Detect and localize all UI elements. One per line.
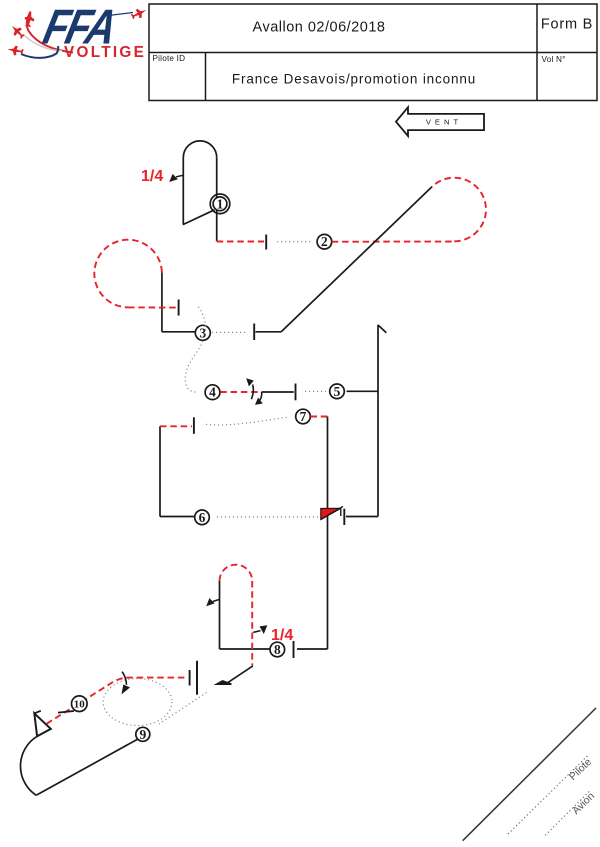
- figure 6 red dashed exit: [160, 425, 192, 427]
- red plane top right: [130, 6, 149, 22]
- svg-text:1/4: 1/4: [271, 627, 293, 644]
- figure 3 red dashed loop: [94, 240, 162, 308]
- figure 5 end tick: [343, 509, 345, 525]
- figure 2 exit horizontal line: [256, 331, 282, 333]
- connector dotted to circle 5: [305, 390, 326, 392]
- figure 5 bottom exit line: [346, 516, 378, 518]
- figure 9 exit open arrowhead: [34, 711, 51, 737]
- connector dotted curve to circle 7: [206, 417, 287, 425]
- signature dotted line Pilote: [508, 754, 594, 834]
- figure 3 end tick: [178, 300, 180, 316]
- fig1 diagonal line: [183, 210, 215, 225]
- svg-text:7: 7: [300, 409, 307, 424]
- figure 4 rotation arrow upper: [246, 378, 254, 399]
- figure 8 quarter roll arrow: [206, 598, 219, 606]
- node circle 5: [330, 384, 345, 399]
- svg-text:4: 4: [209, 385, 216, 400]
- figure 9 diagonal down line: [36, 739, 138, 795]
- figure 8 quarter roll arrow on down line: [253, 625, 267, 634]
- fig1 top half-loop cap: [183, 141, 216, 158]
- fig1 left vertical line: [182, 157, 184, 225]
- figure 8 entry horizontal line: [220, 648, 270, 650]
- figure 4 end tick: [295, 384, 297, 401]
- figure 8 exit diagonal arrow: [214, 666, 254, 685]
- figure 4 solid exit line: [262, 391, 294, 393]
- svg-text:9: 9: [139, 727, 146, 742]
- figure 5 entry horizontal line: [347, 390, 379, 392]
- svg-text:Pilote: Pilote: [567, 756, 594, 783]
- figure 10 end tick: [189, 670, 191, 686]
- node circle 10: [72, 696, 88, 712]
- figure 7 end tick: [293, 641, 295, 658]
- figure 3 vertical line: [161, 272, 163, 332]
- svg-text:3: 3: [199, 325, 206, 340]
- connector dotted to circle 6: [217, 516, 319, 518]
- figure 6 end tick: [193, 417, 195, 434]
- figure 3 entry horizontal line: [162, 331, 195, 333]
- svg-text:6: 6: [199, 510, 206, 525]
- figure 8 red dashed down line: [251, 581, 253, 665]
- figure 7 red dashed entry: [311, 416, 328, 418]
- figure 5 vertical line: [377, 325, 379, 517]
- node circle 1 (double ring): [210, 194, 230, 214]
- svg-text:Vol N°: Vol N°: [542, 55, 566, 64]
- header table frame: [149, 4, 597, 101]
- node circle 2: [317, 234, 332, 249]
- node circle 4: [205, 385, 220, 400]
- fig1 end tick: [265, 235, 267, 250]
- node circle 7: [296, 409, 311, 424]
- figure 10 red dashed diagonal: [47, 678, 188, 724]
- svg-text:VENT: VENT: [426, 118, 462, 127]
- figure 9 half loop arc: [20, 736, 37, 795]
- node circle 9: [136, 727, 150, 742]
- svg-text:Avion: Avion: [570, 790, 597, 817]
- figure 6 entry horizontal line: [160, 516, 195, 518]
- figure 3 red dashed exit line: [128, 306, 177, 308]
- red plane lower left: [7, 44, 24, 57]
- gray swoosh middle: [25, 36, 62, 51]
- node circle 6: [195, 510, 210, 525]
- figure 2 red dashed loop: [432, 178, 486, 242]
- svg-text:8: 8: [274, 642, 281, 657]
- figure 5 top turn tick: [378, 325, 386, 333]
- figure 2 end tick: [253, 324, 255, 341]
- figure 2 solid diagonal down line: [281, 187, 432, 332]
- FFA wordmark: [38, 0, 119, 54]
- sequence end bar: [196, 661, 198, 695]
- figure 7 bottom exit line: [297, 648, 328, 650]
- figure 7 vertical down line: [327, 417, 329, 650]
- connector dotted to circle 3: [212, 331, 246, 333]
- red plane climbing upper left: [23, 10, 36, 28]
- connector dotted ellipse: [103, 679, 172, 726]
- figure 2 red dashed entry line: [332, 241, 454, 243]
- figure 10 curved roll arrow: [122, 672, 131, 695]
- svg-text:1: 1: [217, 196, 224, 211]
- blue swoosh lower: [21, 46, 58, 58]
- figure 10 roll tick: [58, 711, 74, 713]
- fig1 right vertical line: [216, 158, 218, 241]
- figure 4 rotation arrow lower: [255, 392, 263, 405]
- logo FFA Voltige: [7, 0, 149, 61]
- signature dotted line Avion: [545, 790, 597, 835]
- svg-text:France Desavois/promotion inco: France Desavois/promotion inconnu: [232, 72, 476, 87]
- node circle 3: [195, 325, 210, 340]
- svg-text:Pilote ID: Pilote ID: [153, 54, 186, 63]
- svg-text:VOLTIGE: VOLTIGE: [64, 44, 146, 61]
- fig1 exit red dashed line: [217, 241, 264, 243]
- wind arrow VENT: [396, 107, 484, 136]
- red swoosh upper: [27, 12, 73, 53]
- svg-text:Avallon 02/06/2018: Avallon 02/06/2018: [253, 20, 386, 36]
- blue line to top-right plane: [104, 13, 133, 17]
- fig1 quarter roll arrow: [169, 174, 183, 182]
- connector dotted diagonal to ellipse: [159, 693, 207, 725]
- svg-text:5: 5: [334, 384, 341, 399]
- signature solid diagonal: [463, 708, 596, 841]
- connector dotted to fig2: [277, 241, 313, 243]
- figure 8 up vertical line: [219, 581, 221, 649]
- connector dotted S curve to circle 4: [185, 307, 205, 392]
- red plane mid left: [8, 22, 26, 40]
- figure 7 snap roll flag: [321, 506, 343, 519]
- svg-text:10: 10: [74, 699, 86, 711]
- figure 8 red dashed half loop: [220, 565, 253, 581]
- figure 1 lines: [183, 141, 217, 241]
- svg-text:Form B: Form B: [541, 17, 593, 33]
- figure 4 red dashed entry: [220, 391, 260, 393]
- figure 6 vertical line: [159, 426, 161, 516]
- node circle 8: [270, 642, 285, 657]
- svg-text:1/4: 1/4: [141, 168, 163, 185]
- svg-text:2: 2: [321, 234, 328, 249]
